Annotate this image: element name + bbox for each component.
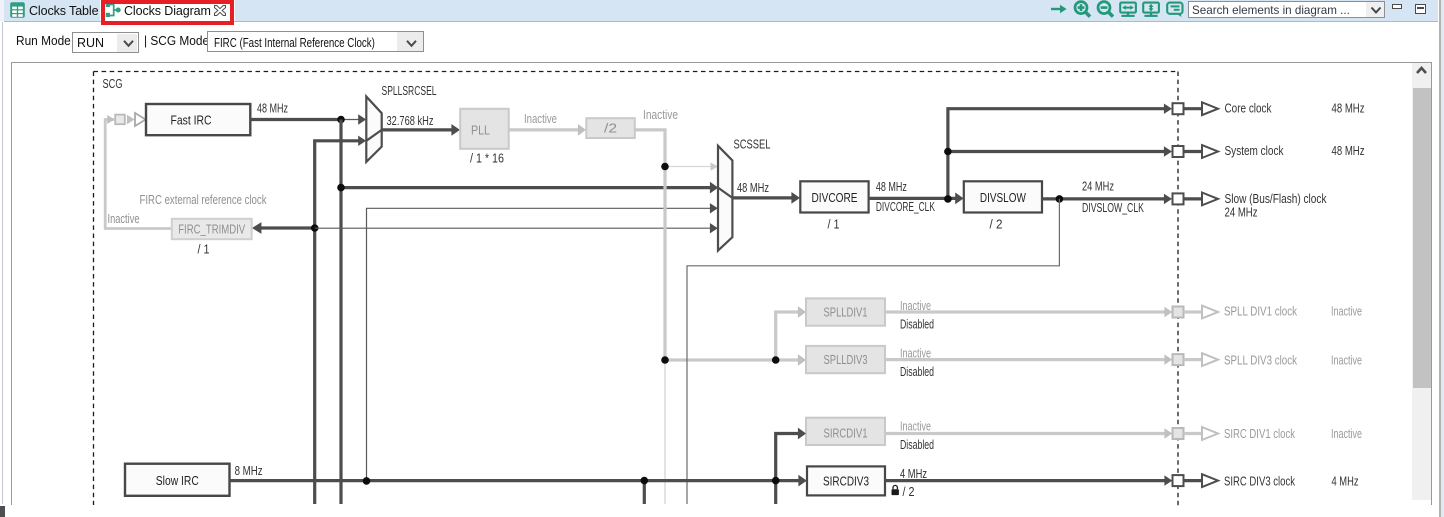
tab bar background — [0, 0, 1444, 21]
svg-text:4 MHz: 4 MHz — [1332, 473, 1359, 488]
output port Slow (Bus/Flash) clock — [1173, 193, 1184, 204]
wire SIRCDIV branch down — [774, 481, 777, 504]
svg-text:24 MHz: 24 MHz — [1082, 178, 1114, 193]
component Slow IRC — [125, 464, 230, 496]
output port System clock — [1173, 146, 1184, 157]
component DIVCORE — [800, 181, 868, 212]
svg-text:Inactive: Inactive — [108, 211, 140, 226]
wire Fast IRC output to node A — [250, 118, 341, 121]
svg-text:SCSSEL: SCSSEL — [734, 137, 771, 152]
diagram tab icon — [105, 2, 122, 18]
monitor h — [1120, 3, 1136, 13]
svg-text:Inactive: Inactive — [1331, 304, 1362, 319]
node E junction dot — [772, 356, 780, 364]
svg-text:/ 1: / 1 — [828, 216, 840, 231]
svg-text:SIRC DIV1 clock: SIRC DIV1 clock — [1224, 426, 1295, 441]
node I junction dot — [641, 477, 649, 485]
output port SPLL DIV1 clock (inactive) — [1173, 307, 1184, 318]
svg-text:Inactive: Inactive — [1331, 352, 1362, 367]
svg-text:SPLL DIV1 clock: SPLL DIV1 clock — [1224, 304, 1297, 319]
wire to FIRC_TRIMDIV (arrow points left) — [260, 226, 314, 229]
search combo — [1188, 1, 1386, 18]
svg-text:SPLLDIV3: SPLLDIV3 — [824, 352, 868, 367]
wire node A to SCSSEL in2 (thick) — [341, 186, 711, 189]
wire DIVCORE to DIVSLOW — [869, 197, 956, 200]
right window edge — [1438, 0, 1439, 517]
svg-text:Slow IRC: Slow IRC — [156, 473, 199, 488]
node H junction dot — [363, 477, 371, 485]
svg-text:4 MHz: 4 MHz — [900, 466, 927, 481]
svg-text:48 MHz: 48 MHz — [1332, 100, 1365, 115]
svg-text:SPLLSRCSEL: SPLLSRCSEL — [382, 83, 437, 98]
svg-text:Fast IRC: Fast IRC — [171, 112, 212, 127]
svg-text:PLL: PLL — [471, 123, 490, 138]
component PLL — [460, 109, 509, 149]
svg-text:8 MHz: 8 MHz — [235, 463, 263, 478]
wire SPLLDIV3 output (inactive) — [885, 358, 1165, 361]
svg-text:DIVCORE: DIVCORE — [812, 190, 858, 205]
wire SIRC branch down — [643, 481, 646, 504]
wire node E up to SPLLDIV1 — [776, 312, 799, 360]
svg-text:/ 1 * 16: / 1 * 16 — [470, 150, 504, 165]
svg-text:/ 2: / 2 — [903, 484, 915, 499]
svg-text:FIRC external reference clock: FIRC external reference clock — [140, 192, 267, 207]
svg-text:Inactive: Inactive — [1331, 426, 1362, 441]
close X icon — [214, 5, 226, 16]
SCG dashed boundary — [94, 72, 1179, 508]
tab 2: Clocks Diagram (active, white) — [100, 0, 235, 21]
lock icon — [892, 485, 899, 495]
wire node E to SPLLDIV3 — [776, 358, 799, 361]
monitor v — [1143, 3, 1159, 13]
wire PLL to /2 (inactive) — [509, 128, 579, 131]
node F junction dots — [944, 148, 952, 156]
svg-text:System clock: System clock — [1225, 143, 1284, 158]
svg-text:Inactive: Inactive — [643, 107, 678, 122]
zoom out — [1098, 2, 1110, 14]
svg-text:24 MHz: 24 MHz — [1225, 205, 1258, 220]
zoom in — [1075, 2, 1087, 14]
svg-text:SCG: SCG — [103, 76, 123, 91]
wire trim feedback arrow into square — [107, 115, 114, 124]
svg-text:Disabled: Disabled — [900, 316, 934, 331]
svg-text:Disabled: Disabled — [900, 437, 934, 452]
svg-text:/ 2: / 2 — [990, 216, 1003, 231]
svg-text:48 MHz: 48 MHz — [737, 180, 769, 195]
svg-text:Inactive: Inactive — [524, 111, 557, 126]
comment bubble — [1167, 3, 1182, 14]
wire node B to SCSSEL in4 (thin) — [315, 227, 711, 229]
output port Core clock — [1173, 103, 1184, 114]
wire thin light continuation down — [664, 360, 666, 504]
wire node A vertical down — [339, 120, 342, 505]
node D junction dot — [661, 356, 669, 364]
node trim feedback checkbox square — [115, 115, 125, 125]
component SIRCDIV1 — [806, 418, 885, 445]
svg-text:Inactive: Inactive — [900, 418, 931, 433]
node Fast IRC input open triangle — [135, 113, 146, 126]
wire SIRC to SCSSEL in3 (thin) — [367, 208, 711, 481]
output port SIRC DIV1 clock (inactive) — [1173, 428, 1184, 439]
svg-text:FIRC_TRIMDIV: FIRC_TRIMDIV — [178, 221, 245, 236]
component SPLLSRCSEL mux — [366, 97, 381, 162]
component DIVSLOW — [964, 181, 1042, 212]
wire SIRC to SIRCDIV1 elbow — [776, 434, 799, 481]
wire SCSSEL output to DIVCORE — [732, 196, 792, 199]
maximize icon — [1415, 4, 1426, 14]
component SPLLDIV1 — [806, 298, 885, 325]
svg-text:SIRCDIV3: SIRCDIV3 — [823, 473, 869, 488]
svg-text:DIVSLOW_CLK: DIVSLOW_CLK — [1082, 200, 1144, 215]
svg-text:SPLL DIV3 clock: SPLL DIV3 clock — [1224, 352, 1297, 367]
run mode row — [16, 34, 71, 48]
wire DIVSLOW output to Slow clock — [1042, 197, 1165, 200]
wire DIVSLOW_CLK feedback (thin) — [687, 199, 1059, 504]
wire node A to SPLLSRCSEL in1 (thin) — [341, 119, 359, 121]
arrow — [1051, 8, 1062, 10]
node J junction dot — [772, 477, 780, 485]
svg-text:48 MHz: 48 MHz — [257, 101, 288, 116]
wire trim feedback arrow segment — [127, 115, 135, 125]
svg-text:Core clock: Core clock — [1225, 100, 1272, 115]
svg-text:SIRC DIV3 clock: SIRC DIV3 clock — [1224, 473, 1295, 488]
tab 1: Clocks Table — [10, 2, 25, 18]
wire SIRC main line — [230, 479, 800, 482]
wire riser to Core clock and System clock — [948, 109, 1165, 199]
wire SPLLSRCSEL output to PLL — [382, 128, 452, 131]
output port SPLL DIV3 clock (inactive) — [1173, 354, 1184, 365]
node G junction dot — [1056, 195, 1064, 203]
bottom-left dark square — [0, 506, 5, 517]
wire SIRCDIV3 output — [885, 479, 1165, 482]
svg-text:/ 1: / 1 — [198, 241, 210, 256]
component SCSSEL mux — [718, 146, 732, 251]
red annotation rectangle — [101, 0, 235, 25]
node A junction dot — [337, 116, 345, 124]
node C junction dot — [661, 163, 669, 171]
left thin border line — [2, 22, 3, 504]
component FIRC_TRIMDIV — [172, 219, 252, 239]
component Fast IRC — [146, 104, 250, 135]
svg-text:Disabled: Disabled — [900, 364, 934, 379]
minimize icon — [1392, 4, 1403, 9]
svg-text:DIVCORE_CLK: DIVCORE_CLK — [876, 199, 935, 214]
svg-text:/2: /2 — [604, 121, 617, 136]
component SPLLDIV3 — [806, 346, 885, 373]
node B junction dot on riser — [311, 224, 319, 232]
wire vertical riser to SPLLSRCSEL in2 — [315, 141, 359, 504]
component /2 divider — [586, 118, 635, 138]
svg-text:48 MHz: 48 MHz — [876, 179, 907, 194]
svg-text:48 MHz: 48 MHz — [1332, 143, 1365, 158]
scrollbar — [1412, 63, 1431, 500]
wire FIRC trim feedback (inactive) — [105, 120, 172, 229]
wire SPLLDIV1 output (inactive) — [885, 310, 1165, 313]
wire node D to node E (inactive) — [665, 358, 776, 361]
wire to SCSSEL in1 (thin light) — [665, 166, 711, 168]
component SIRCDIV3 — [807, 466, 885, 495]
svg-text:32.768 kHz: 32.768 kHz — [387, 113, 434, 128]
svg-text:SPLLDIV1: SPLLDIV1 — [824, 304, 868, 319]
svg-text:DIVSLOW: DIVSLOW — [980, 190, 1027, 205]
wire SIRCDIV1 output (inactive) — [885, 432, 1165, 435]
output port SIRC DIV3 clock — [1173, 475, 1184, 486]
toolbar icons — [1048, 0, 1188, 20]
svg-text:SIRCDIV1: SIRCDIV1 — [824, 426, 868, 441]
wire /2 output elbow down (inactive) — [635, 130, 665, 360]
